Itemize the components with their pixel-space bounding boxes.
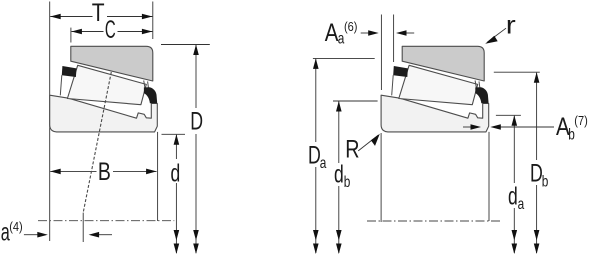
svg-text:a: a	[518, 194, 525, 212]
svg-text:D: D	[308, 141, 321, 170]
svg-text:B: B	[98, 158, 111, 186]
svg-text:b: b	[542, 172, 549, 190]
svg-text:C: C	[105, 16, 116, 44]
svg-text:T: T	[92, 0, 105, 27]
svg-text:r: r	[506, 11, 516, 39]
svg-text:a: a	[320, 153, 327, 171]
svg-text:R: R	[345, 135, 359, 163]
svg-text:D: D	[190, 106, 203, 135]
svg-text:d: d	[171, 158, 181, 187]
svg-text:b: b	[344, 172, 351, 190]
svg-text:d: d	[334, 159, 344, 188]
svg-text:(6): (6)	[344, 19, 357, 34]
svg-text:(4): (4)	[9, 219, 22, 234]
svg-text:d: d	[508, 181, 518, 210]
svg-text:A: A	[325, 18, 339, 46]
svg-text:(7): (7)	[574, 113, 587, 128]
svg-text:D: D	[530, 159, 543, 188]
